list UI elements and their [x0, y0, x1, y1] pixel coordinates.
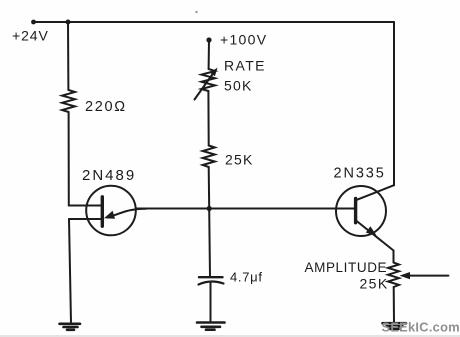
svg-text:2N489: 2N489: [82, 167, 136, 184]
scan artifact: faint bottom edge line: [0, 335, 460, 337]
transistor Q2 base bar: [354, 198, 357, 222]
scan artifact: speck above RATE pot: [195, 11, 197, 13]
ground (right): [383, 323, 407, 329]
transistor Q2 2N335 circle: [336, 186, 386, 236]
Q1 emitter arrowhead: [104, 211, 115, 219]
node: emitter timing node dot: [207, 206, 212, 211]
R2 wiper arrowhead: [210, 68, 217, 77]
wire: horizontal emitter bus between Q1 and Q2: [136, 208, 354, 210]
wire: emitter down to amplitude pot: [393, 251, 395, 263]
svg-text:220Ω: 220Ω: [85, 99, 127, 115]
node: +100V terminal dot: [206, 37, 211, 42]
Q2 emitter arrowhead: [366, 226, 377, 235]
wire: Q2 collector diagonal: [356, 185, 394, 200]
wire: from R1 down to 2N489 base-two lead: [68, 112, 70, 206]
wire: base-two lead into Q1 bar: [69, 205, 101, 207]
svg-text:25K: 25K: [225, 152, 254, 168]
svg-text:2N335: 2N335: [334, 166, 386, 182]
wire: +100V down to rate pot: [208, 40, 210, 69]
capacitor C1 bottom plate (curved): [199, 281, 224, 284]
wire: rate pot down to resistor R3: [207, 91, 209, 146]
wire: amplitude pot down to right ground: [393, 287, 395, 323]
svg-text:50K: 50K: [224, 78, 253, 94]
wire: right vertical from top bus down to Q2 collector: [393, 22, 395, 185]
potentiometer R2 RATE 50K zigzag: [201, 69, 215, 91]
transistor Q1 base bar: [101, 197, 104, 226]
svg-text:AMPLITUDE: AMPLITUDE: [305, 260, 388, 275]
svg-text:25K: 25K: [360, 276, 389, 292]
wire: base-one lead from Q1 bar: [69, 218, 101, 220]
node: junction of top bus and 220 ohm branch: [66, 20, 71, 25]
wire: from top bus down to resistor R1: [67, 22, 69, 90]
svg-text:RATE: RATE: [224, 58, 266, 74]
R4 wiper arrow line: [409, 275, 448, 277]
svg-text:4.7μf: 4.7μf: [230, 270, 263, 285]
svg-text:+100V: +100V: [220, 32, 267, 48]
svg-text:+24V: +24V: [12, 28, 49, 44]
wire: Q1 emitter curve: [108, 209, 146, 218]
transistor Q1 2N489 circle: [86, 186, 136, 236]
wire: +24V top bus: [33, 21, 394, 23]
R2 wiper arrow line: [195, 74, 214, 100]
wire: C1 to middle ground: [210, 283, 212, 322]
R4 wiper arrowhead: [400, 272, 411, 279]
node: +24V terminal dot: [31, 20, 36, 25]
resistor R1 220 ohm: [62, 90, 75, 112]
svg-text:SEEkIC.com: SEEkIC.com: [382, 320, 460, 335]
potentiometer R4 AMPLITUDE 25K zigzag: [388, 263, 399, 288]
wire: Q2 emitter diagonal: [356, 221, 394, 251]
resistor R3 25K: [203, 146, 215, 168]
capacitor C1 top plate: [199, 276, 223, 278]
wire: from base-one lead down to left ground: [69, 219, 71, 323]
wire: R3 down through node to capacitor C1: [209, 167, 210, 277]
ground (left): [60, 324, 81, 330]
ground (middle): [197, 323, 225, 330]
